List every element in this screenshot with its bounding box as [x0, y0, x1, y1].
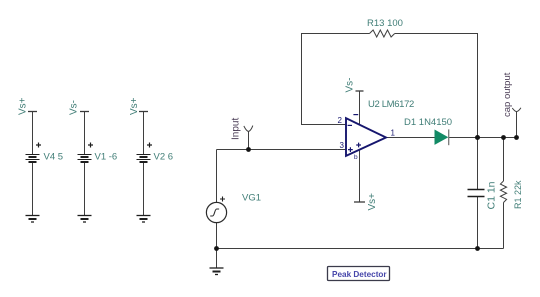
svg-text:D1 1N4150: D1 1N4150: [404, 117, 452, 128]
svg-text:Vs+: Vs+: [18, 97, 29, 115]
svg-text:cap output: cap output: [502, 72, 513, 117]
svg-text:Vs+: Vs+: [129, 97, 140, 115]
svg-text:V2 6: V2 6: [154, 152, 174, 163]
svg-text:b: b: [354, 154, 358, 161]
svg-text:Vs-: Vs-: [69, 100, 80, 115]
svg-text:Peak Detector: Peak Detector: [332, 270, 387, 279]
svg-text:V1 -6: V1 -6: [95, 152, 118, 163]
svg-text:V4 5: V4 5: [44, 152, 64, 163]
svg-text:1: 1: [391, 128, 396, 137]
svg-text:R1 22k: R1 22k: [513, 180, 523, 209]
svg-text:U2 LM6172: U2 LM6172: [368, 99, 414, 110]
svg-text:C1 1n: C1 1n: [485, 181, 497, 209]
svg-text:2: 2: [338, 116, 343, 125]
svg-text:Vs-: Vs-: [345, 78, 356, 93]
svg-text:Vs+: Vs+: [367, 193, 378, 211]
svg-text:3: 3: [340, 141, 345, 150]
svg-text:R13 100: R13 100: [367, 18, 403, 29]
svg-text:Input: Input: [231, 118, 242, 140]
svg-text:VG1: VG1: [242, 193, 261, 204]
